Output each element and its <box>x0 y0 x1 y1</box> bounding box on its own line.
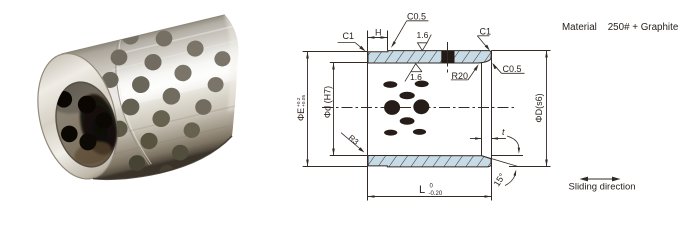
leader R3 <box>341 133 364 153</box>
bushing top edge line (photo) <box>62 15 225 54</box>
graphite plug dots on outer surface (photo) <box>97 27 232 182</box>
svg-text:ΦE: ΦE <box>296 108 306 121</box>
dimension phiE <box>306 52 309 167</box>
phiE bottom extension <box>303 166 368 168</box>
dimension phid <box>332 63 335 156</box>
taper top extension (t target) <box>491 155 523 157</box>
roughness symbol top (1.6) <box>418 35 432 51</box>
plug holes inside bore (photo) <box>56 91 115 169</box>
bore inner-wall top shadow (photo) <box>47 72 113 119</box>
svg-text:C1: C1 <box>343 31 355 41</box>
dimension H <box>368 36 388 39</box>
15 deg taper extension line <box>482 156 519 167</box>
right end face line <box>491 51 493 201</box>
top wall section (hatched) <box>368 51 491 63</box>
bottom silhouette shading (photo) <box>93 136 232 179</box>
bottom wall section (hatched) <box>368 156 491 167</box>
phid top extension <box>330 62 368 64</box>
phiD top extension <box>491 50 550 52</box>
leader C0.5 right <box>492 63 524 73</box>
bore taper start line <box>481 63 483 156</box>
dimension t (taper length) <box>470 137 506 140</box>
leader C1 left <box>338 43 366 52</box>
svg-text:H: H <box>375 28 382 38</box>
land step seam (photo) <box>116 40 152 165</box>
svg-text:C0.5: C0.5 <box>503 64 522 74</box>
bore lip inner edge (photo) <box>48 76 125 173</box>
svg-text:ΦD(s6): ΦD(s6) <box>534 93 544 122</box>
left extension down (L) <box>367 166 369 201</box>
label R20 <box>452 71 469 81</box>
svg-text:Material 250# + Graphite: Material 250# + Graphite <box>562 22 679 33</box>
svg-text:1.6: 1.6 <box>410 72 422 82</box>
label t <box>502 127 505 137</box>
svg-text:Sliding direction: Sliding direction <box>569 182 636 193</box>
graphite plug (section, top wall) <box>441 51 454 63</box>
highlight band on cylinder (photo) <box>50 0 260 120</box>
label Sliding direction <box>569 182 636 193</box>
phiD bottom extension <box>509 166 551 168</box>
label C1 right <box>480 27 492 37</box>
svg-text:Φd (H7): Φd (H7) <box>323 86 333 118</box>
dimension L <box>368 195 492 198</box>
label C0.5 right <box>503 64 522 74</box>
svg-text:+0.05: +0.05 <box>301 95 307 107</box>
leader R20 <box>451 64 479 80</box>
t leader arrow down <box>507 136 520 154</box>
label 15 deg <box>492 171 508 188</box>
H right extension line <box>387 31 389 51</box>
label H <box>375 28 382 38</box>
phid bottom extension <box>330 155 368 157</box>
label phiD(s6) <box>534 93 544 122</box>
horizontal centerline <box>322 107 515 109</box>
label Material <box>562 22 679 33</box>
left end face line <box>367 52 369 166</box>
label L with tolerance <box>419 184 443 198</box>
svg-text:L: L <box>419 184 425 196</box>
svg-text:-0.20: -0.20 <box>429 191 443 197</box>
bore opening lip (photo) <box>47 75 125 173</box>
bore dark void (photo) <box>74 90 123 159</box>
graphite plugs seen through bore (front view) <box>383 81 429 136</box>
bushing front face ring (photo) <box>25 45 129 188</box>
svg-text:C1: C1 <box>480 27 492 37</box>
label C1 left <box>343 31 355 41</box>
svg-text:R20: R20 <box>452 71 469 81</box>
plug centerline <box>447 42 449 73</box>
roughness symbol bottom (1.6) <box>405 64 422 82</box>
sliding direction arrow <box>580 177 621 182</box>
left extension up (H) <box>367 31 369 52</box>
label 1.6 bottom <box>410 72 422 82</box>
phiE top extension <box>303 51 368 53</box>
label C0.5 top <box>407 12 426 22</box>
15deg leader arc <box>505 170 516 186</box>
label 1.6 top <box>417 30 429 40</box>
label phiE with tolerance <box>296 95 307 121</box>
dimension phiD <box>545 51 548 167</box>
bushing body (photo) <box>37 15 238 180</box>
leader C0.5 top <box>391 21 428 48</box>
svg-text:C0.5: C0.5 <box>407 12 426 22</box>
label phid (H7) <box>323 86 333 118</box>
label R3 <box>347 133 361 147</box>
brushed metal streaks (photo) <box>100 25 239 156</box>
svg-text:1.6: 1.6 <box>417 30 429 40</box>
leader C1 right <box>477 36 490 51</box>
front land band shading (photo) <box>62 40 150 179</box>
